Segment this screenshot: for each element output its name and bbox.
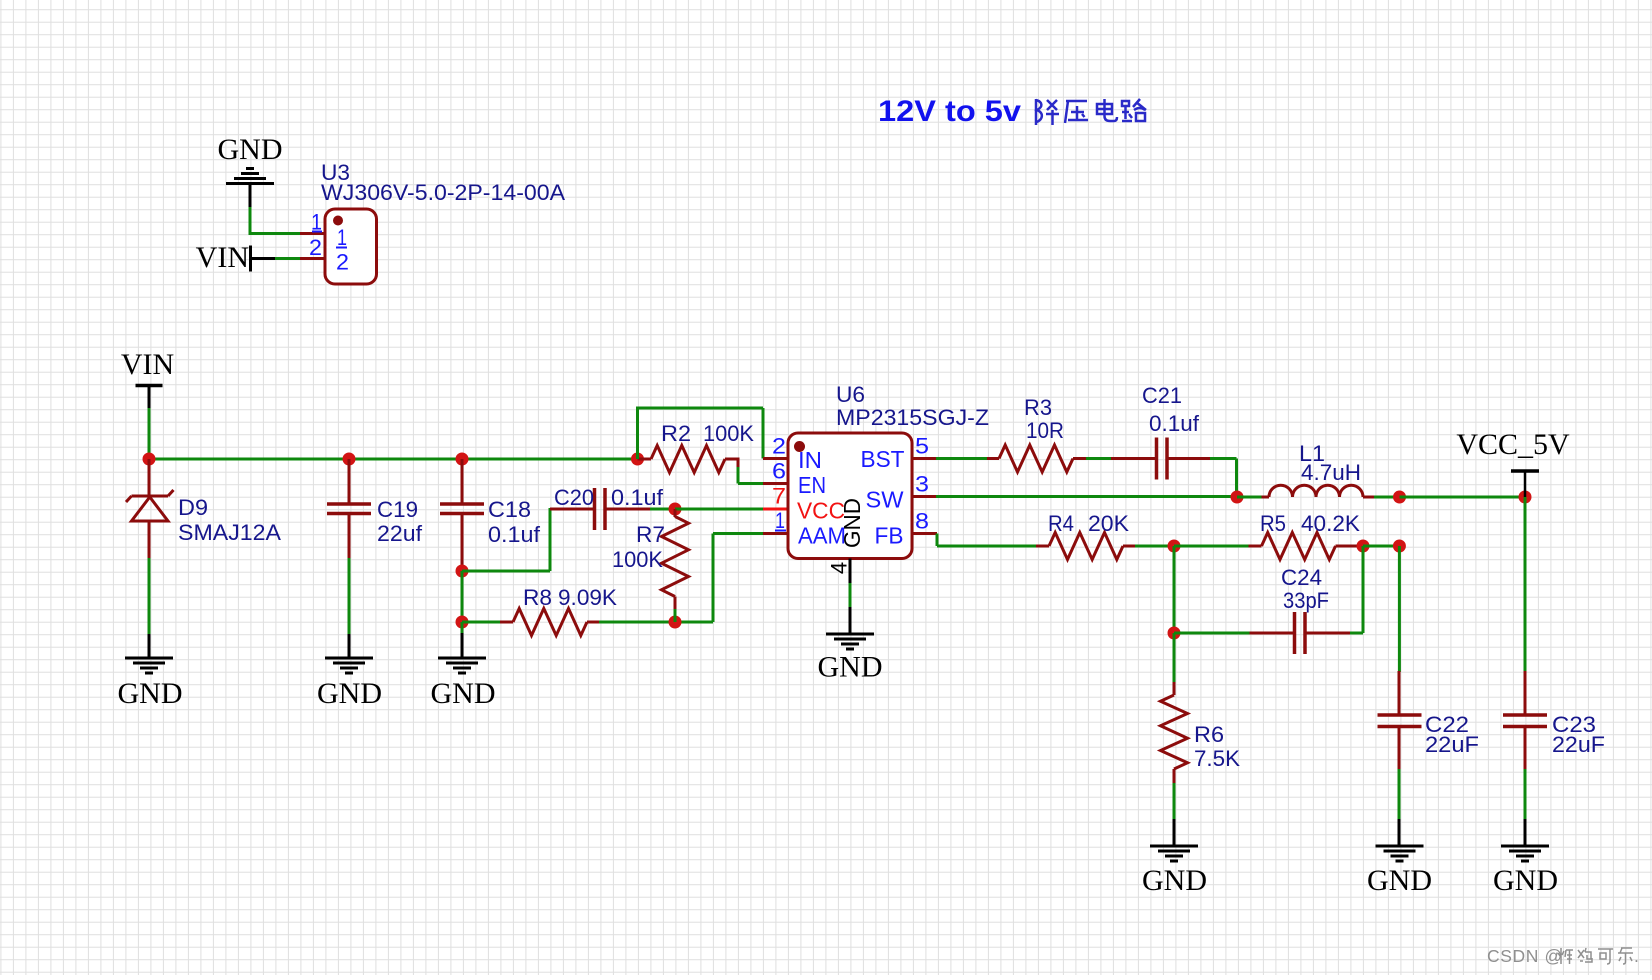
svg-text:0.1uf: 0.1uf	[611, 485, 664, 510]
resistor R7 bottom lead	[674, 597, 677, 611]
label 0.1uf (C20)	[611, 485, 664, 510]
svg-text:C19: C19	[377, 497, 418, 522]
capacitor C19 top lead	[348, 459, 351, 504]
inductor L1 right lead	[1363, 496, 1375, 499]
pin name IN	[798, 447, 822, 473]
node R2 junction	[631, 453, 644, 466]
wire output down to C22	[1398, 546, 1401, 672]
node VIN-D9 junction	[143, 453, 156, 466]
svg-text:U6: U6	[836, 382, 865, 407]
svg-text:GND: GND	[317, 677, 382, 710]
pin number 4 (U6, rotated)	[827, 562, 852, 574]
svg-text:3: 3	[915, 472, 929, 497]
capacitor C20 left lead	[550, 508, 595, 511]
label R2	[661, 421, 691, 446]
wire up to pin 1 (AAM)	[713, 534, 763, 623]
resistor R3	[999, 445, 1073, 472]
pin name EN	[798, 472, 826, 498]
wire L1 to VCC_5V node	[1374, 496, 1400, 499]
svg-text:VCC_5V: VCC_5V	[1456, 428, 1570, 461]
label 22uF (C22)	[1425, 732, 1479, 757]
title text 路	[1122, 99, 1146, 121]
pin number 2 (U6)	[772, 434, 786, 459]
net label GND (C22)	[1367, 864, 1432, 897]
capacitor C18 bottom lead	[461, 514, 464, 572]
wire SW	[936, 495, 1237, 498]
svg-text:GND: GND	[839, 498, 865, 548]
U6 pin-1 marker dot	[794, 441, 805, 452]
svg-text:IN: IN	[798, 447, 822, 473]
label 100K (R7)	[612, 547, 663, 572]
label R4	[1048, 511, 1074, 536]
wire R6 to GND	[1173, 783, 1176, 846]
label 0.1uf (C18)	[488, 522, 541, 547]
svg-text:GND: GND	[1493, 864, 1558, 897]
wire pin5 to R3	[936, 457, 988, 460]
U6 pin 8 stub	[911, 532, 937, 535]
node C18 bottom junction	[456, 565, 469, 578]
pin name AAM	[798, 523, 846, 549]
label 10R	[1026, 418, 1064, 443]
U3 pin 2 stub	[300, 257, 326, 260]
svg-text:GND: GND	[818, 651, 883, 684]
ground (R6)	[1150, 846, 1198, 861]
wire C22 to GND	[1398, 769, 1401, 846]
svg-text:2: 2	[772, 434, 786, 459]
capacitor C24 right lead	[1305, 632, 1351, 635]
pin number 1 (U6)	[775, 508, 786, 533]
resistor R8	[513, 609, 587, 636]
label 20K	[1088, 511, 1129, 536]
resistor R5 left lead	[1249, 545, 1262, 548]
pin number 6 (U6)	[772, 459, 786, 484]
node VCC_5V junction	[1519, 491, 1532, 504]
svg-text:C18: C18	[488, 497, 531, 522]
wire pin 4 to GND	[849, 559, 852, 635]
svg-text:0.1uf: 0.1uf	[488, 522, 541, 547]
wire below R8 junction	[461, 622, 464, 658]
label R3	[1024, 395, 1052, 420]
label L1	[1299, 441, 1325, 466]
pin number 1 (U3)	[311, 210, 322, 235]
label C21	[1142, 383, 1182, 408]
wire FB node to R5	[1174, 545, 1250, 548]
watermark dot	[1634, 946, 1639, 966]
capacitor C22 top lead	[1398, 671, 1401, 715]
node R7 top junction	[669, 503, 682, 516]
ground (C22)	[1376, 846, 1424, 861]
svg-text:100K: 100K	[612, 547, 663, 572]
ground (C18)	[438, 658, 486, 673]
label 7.5K	[1194, 746, 1240, 771]
resistor R4 right lead	[1123, 545, 1136, 548]
label R5	[1260, 511, 1286, 536]
label C19	[377, 497, 418, 522]
node C19 junction	[343, 453, 356, 466]
resistor R2 right lead	[725, 458, 738, 469]
capacitor C22	[1378, 715, 1422, 727]
svg-text:5: 5	[915, 434, 929, 459]
svg-text:SW: SW	[866, 487, 904, 513]
node L1 output junction	[1393, 491, 1406, 504]
label U6	[836, 382, 865, 407]
svg-text:R3: R3	[1024, 395, 1052, 420]
label R8 9.09K	[523, 585, 617, 610]
label C22	[1425, 712, 1469, 737]
svg-text:BST: BST	[861, 446, 905, 472]
svg-text:22uf: 22uf	[377, 521, 423, 546]
label WJ306V-5.0-2P-14-00A	[321, 180, 565, 205]
U6 pin 6 stub	[763, 482, 789, 485]
svg-text:.: .	[1634, 946, 1639, 966]
wire FB node down	[1173, 546, 1176, 633]
label D9	[178, 495, 208, 520]
watermark CSDN	[1487, 946, 1563, 966]
svg-text:40.2K: 40.2K	[1301, 511, 1360, 536]
wire R8 to R7 bottom	[599, 621, 713, 624]
capacitor C21 left lead	[1111, 457, 1157, 460]
svg-text:GND: GND	[218, 133, 283, 166]
svg-text:CSDN @: CSDN @	[1487, 946, 1563, 966]
inductor L1 left lead	[1262, 496, 1270, 499]
svg-text:VIN: VIN	[121, 348, 174, 381]
node output junction 2	[1393, 540, 1406, 553]
U6 pin 5 stub	[911, 457, 937, 460]
wire output to VCC_5V	[1400, 496, 1526, 499]
wire GND to U3 pin 1 (green segments)	[249, 207, 301, 234]
title text 降	[1036, 99, 1059, 125]
label MP2315SGJ-Z	[836, 405, 989, 430]
label R7	[636, 522, 665, 547]
wire VCC_5V down to C23	[1524, 497, 1527, 672]
wire GND to U3 pin 1 (black segment)	[249, 185, 252, 209]
wire R8 left	[462, 621, 501, 624]
svg-text:7: 7	[772, 484, 786, 509]
IC U6 body	[788, 433, 912, 559]
pin name VCC	[797, 498, 845, 524]
svg-text:4: 4	[827, 562, 852, 574]
svg-text:R4: R4	[1048, 511, 1074, 536]
svg-text:20K: 20K	[1088, 511, 1129, 536]
connector U3 body	[325, 209, 377, 284]
port VCC_5V	[1456, 428, 1570, 471]
label 33pF	[1283, 588, 1329, 613]
diode D9 bottom lead	[148, 521, 151, 559]
U6 pin 7 stub	[763, 508, 789, 511]
wire C20 to R7 top	[650, 508, 676, 511]
pin name SW	[866, 487, 904, 513]
resistor R4	[1049, 533, 1123, 560]
U6 pin 3 stub	[911, 495, 937, 498]
label 0.1uf (C21)	[1149, 411, 1200, 436]
svg-text:C21: C21	[1142, 383, 1182, 408]
pin number 3 (U6)	[915, 472, 929, 497]
capacitor C22 bottom lead	[1398, 727, 1401, 771]
wire C19 to GND	[348, 558, 351, 658]
watermark glyph 乐	[1618, 948, 1633, 964]
U3 pin 1 stub	[300, 232, 326, 235]
svg-text:R5: R5	[1260, 511, 1286, 536]
node C24 junction	[1168, 627, 1181, 640]
resistor R2 left lead	[638, 458, 652, 461]
svg-text:7.5K: 7.5K	[1194, 746, 1240, 771]
title text 12V to 5v	[878, 95, 1021, 128]
svg-text:R7: R7	[636, 522, 665, 547]
node R7 bottom junction	[669, 616, 682, 629]
svg-text:C20: C20	[554, 485, 594, 510]
pin number 2 (U3)	[309, 235, 322, 260]
wire VCC_5V down	[1524, 473, 1527, 498]
diode D9 top lead	[148, 459, 151, 496]
net label GND (D9)	[118, 677, 183, 710]
wire VIN down	[148, 387, 151, 459]
title text 电	[1097, 99, 1117, 121]
capacitor C23	[1503, 715, 1547, 727]
node FB junction	[1168, 540, 1181, 553]
label C24	[1281, 565, 1322, 590]
U3 inside pin name 2	[336, 250, 349, 275]
pin number 8 (U6)	[915, 509, 929, 534]
svg-text:33pF: 33pF	[1283, 588, 1329, 613]
wire FB step	[937, 534, 1037, 547]
resistor R5 right lead	[1336, 545, 1364, 548]
svg-text:SMAJ12A: SMAJ12A	[178, 520, 281, 545]
svg-text:2: 2	[309, 235, 322, 260]
resistor R6 bottom lead	[1173, 769, 1176, 784]
resistor R3 left lead	[987, 457, 999, 460]
capacitor C19 bottom lead	[348, 514, 351, 560]
svg-text:GND: GND	[1142, 864, 1207, 897]
ground symbol (top left, flipped)	[226, 169, 274, 184]
net label GND (C19)	[317, 677, 382, 710]
node R8 junction	[456, 616, 469, 629]
ground (U6)	[826, 634, 874, 649]
capacitor C21 right lead	[1167, 457, 1211, 460]
capacitor C19	[327, 504, 371, 514]
resistor R7 top lead	[674, 509, 677, 517]
svg-text:R2: R2	[661, 421, 691, 446]
net label GND (C23)	[1493, 864, 1558, 897]
svg-text:2: 2	[336, 250, 349, 275]
svg-text:EN: EN	[798, 472, 826, 498]
title text 压	[1065, 101, 1088, 123]
net label GND (R6)	[1142, 864, 1207, 897]
svg-text:0.1uf: 0.1uf	[1149, 411, 1200, 436]
U3 pin-1 marker dot	[333, 216, 343, 226]
label 4.7uH	[1301, 460, 1361, 485]
svg-text:8: 8	[915, 509, 929, 534]
wire C24 junction down	[1173, 633, 1176, 683]
pin number 5 (U6)	[915, 434, 929, 459]
resistor R8 right lead	[587, 621, 600, 624]
wire R2 to pin 6	[738, 467, 763, 484]
capacitor C21	[1157, 438, 1168, 480]
wire VIN to U3 pin 2	[252, 257, 300, 260]
ground (D9)	[125, 658, 173, 673]
label 22uF (C23)	[1552, 732, 1605, 757]
capacitor C20 right lead	[605, 508, 651, 511]
pin name GND (rotated)	[839, 498, 865, 548]
label C20	[554, 485, 594, 510]
label 22uf	[377, 521, 423, 546]
watermark glyph 鸡	[1578, 948, 1592, 962]
wire R4 to FB node	[1135, 545, 1174, 548]
svg-text:D9: D9	[178, 495, 208, 520]
resistor R6 top lead	[1173, 682, 1176, 695]
svg-text:VCC: VCC	[797, 498, 845, 524]
ground (C19)	[325, 658, 373, 673]
resistor R5	[1262, 533, 1336, 560]
resistor R8 left lead	[500, 621, 513, 624]
svg-text:1: 1	[337, 225, 347, 250]
pin name BST	[861, 446, 905, 472]
node SW-C21 junction	[1231, 491, 1244, 504]
wire VIN bus	[149, 458, 638, 461]
svg-text:22uF: 22uF	[1425, 732, 1479, 757]
net label GND (top left)	[218, 133, 283, 166]
label C18	[488, 497, 531, 522]
wire C24 left	[1174, 632, 1251, 635]
wire bypass loop to pin 2	[636, 408, 763, 459]
capacitor C18 top lead	[461, 459, 464, 504]
net label GND (C18)	[431, 677, 496, 710]
pin name FB	[875, 523, 904, 549]
net label GND (U6)	[818, 651, 883, 684]
svg-text:C24: C24	[1281, 565, 1322, 590]
node R5 right junction	[1357, 540, 1370, 553]
svg-text:1: 1	[775, 508, 785, 533]
svg-text:VIN: VIN	[196, 241, 249, 274]
resistor R2	[651, 446, 725, 473]
U6 pin 2 stub	[763, 457, 789, 460]
wire C24 right up	[1350, 546, 1363, 633]
port VIN (U3)	[196, 241, 251, 274]
resistor R3 right lead	[1073, 457, 1087, 460]
capacitor C23 top lead	[1524, 671, 1527, 715]
label 40.2K	[1301, 511, 1360, 536]
resistor R7	[662, 517, 689, 597]
label R6	[1194, 722, 1224, 747]
wire C18 bottom down	[461, 571, 464, 622]
svg-text:GND: GND	[431, 677, 496, 710]
wire R7 bottom	[674, 609, 677, 622]
svg-text:10R: 10R	[1026, 418, 1064, 443]
watermark glyph 可	[1598, 949, 1613, 964]
svg-text:GND: GND	[118, 677, 183, 710]
wire C23 to GND	[1524, 769, 1527, 846]
ground (C23)	[1501, 846, 1549, 861]
wire SW to L1	[1237, 496, 1262, 499]
wire D9 to GND	[148, 558, 151, 658]
svg-text:R8: R8	[523, 585, 552, 610]
wire C18-bottom to C20	[462, 508, 550, 571]
svg-text:GND: GND	[1367, 864, 1432, 897]
wire to pin 7	[675, 508, 763, 511]
svg-text:12V to 5v: 12V to 5v	[878, 95, 1021, 128]
inductor L1	[1269, 485, 1363, 497]
label U3	[321, 160, 350, 185]
svg-text:4.7uH: 4.7uH	[1301, 460, 1361, 485]
svg-text:6: 6	[772, 459, 786, 484]
wire R5 to output	[1363, 545, 1400, 548]
capacitor C24 left lead	[1250, 632, 1296, 635]
label 100K (R2)	[703, 421, 754, 446]
pin number 7 (U6)	[772, 484, 786, 509]
U6 pin 1 stub	[763, 532, 789, 535]
capacitor C18	[440, 504, 484, 514]
capacitor C24	[1295, 612, 1306, 654]
svg-text:100K: 100K	[703, 421, 754, 446]
svg-text:22uF: 22uF	[1552, 732, 1605, 757]
label SMAJ12A	[178, 520, 281, 545]
wire C21 to SW node	[1210, 459, 1237, 498]
capacitor C23 bottom lead	[1524, 727, 1527, 771]
U3 inside pin name 1	[336, 225, 347, 250]
svg-text:FB: FB	[875, 523, 904, 549]
port VIN (main)	[121, 348, 174, 386]
svg-text:9.09K: 9.09K	[558, 585, 617, 610]
node C18 junction	[456, 453, 469, 466]
svg-text:R6: R6	[1194, 722, 1224, 747]
watermark glyph 炸	[1558, 948, 1573, 964]
resistor R4 left lead	[1036, 545, 1049, 548]
diode D9 (zener SMAJ12A)	[126, 490, 174, 521]
capacitor C20	[595, 488, 606, 530]
resistor R6	[1161, 695, 1188, 769]
label C23	[1552, 712, 1596, 737]
wire R3 to C21	[1086, 457, 1112, 460]
svg-text:WJ306V-5.0-2P-14-00A: WJ306V-5.0-2P-14-00A	[321, 180, 565, 205]
svg-text:MP2315SGJ-Z: MP2315SGJ-Z	[836, 405, 989, 430]
